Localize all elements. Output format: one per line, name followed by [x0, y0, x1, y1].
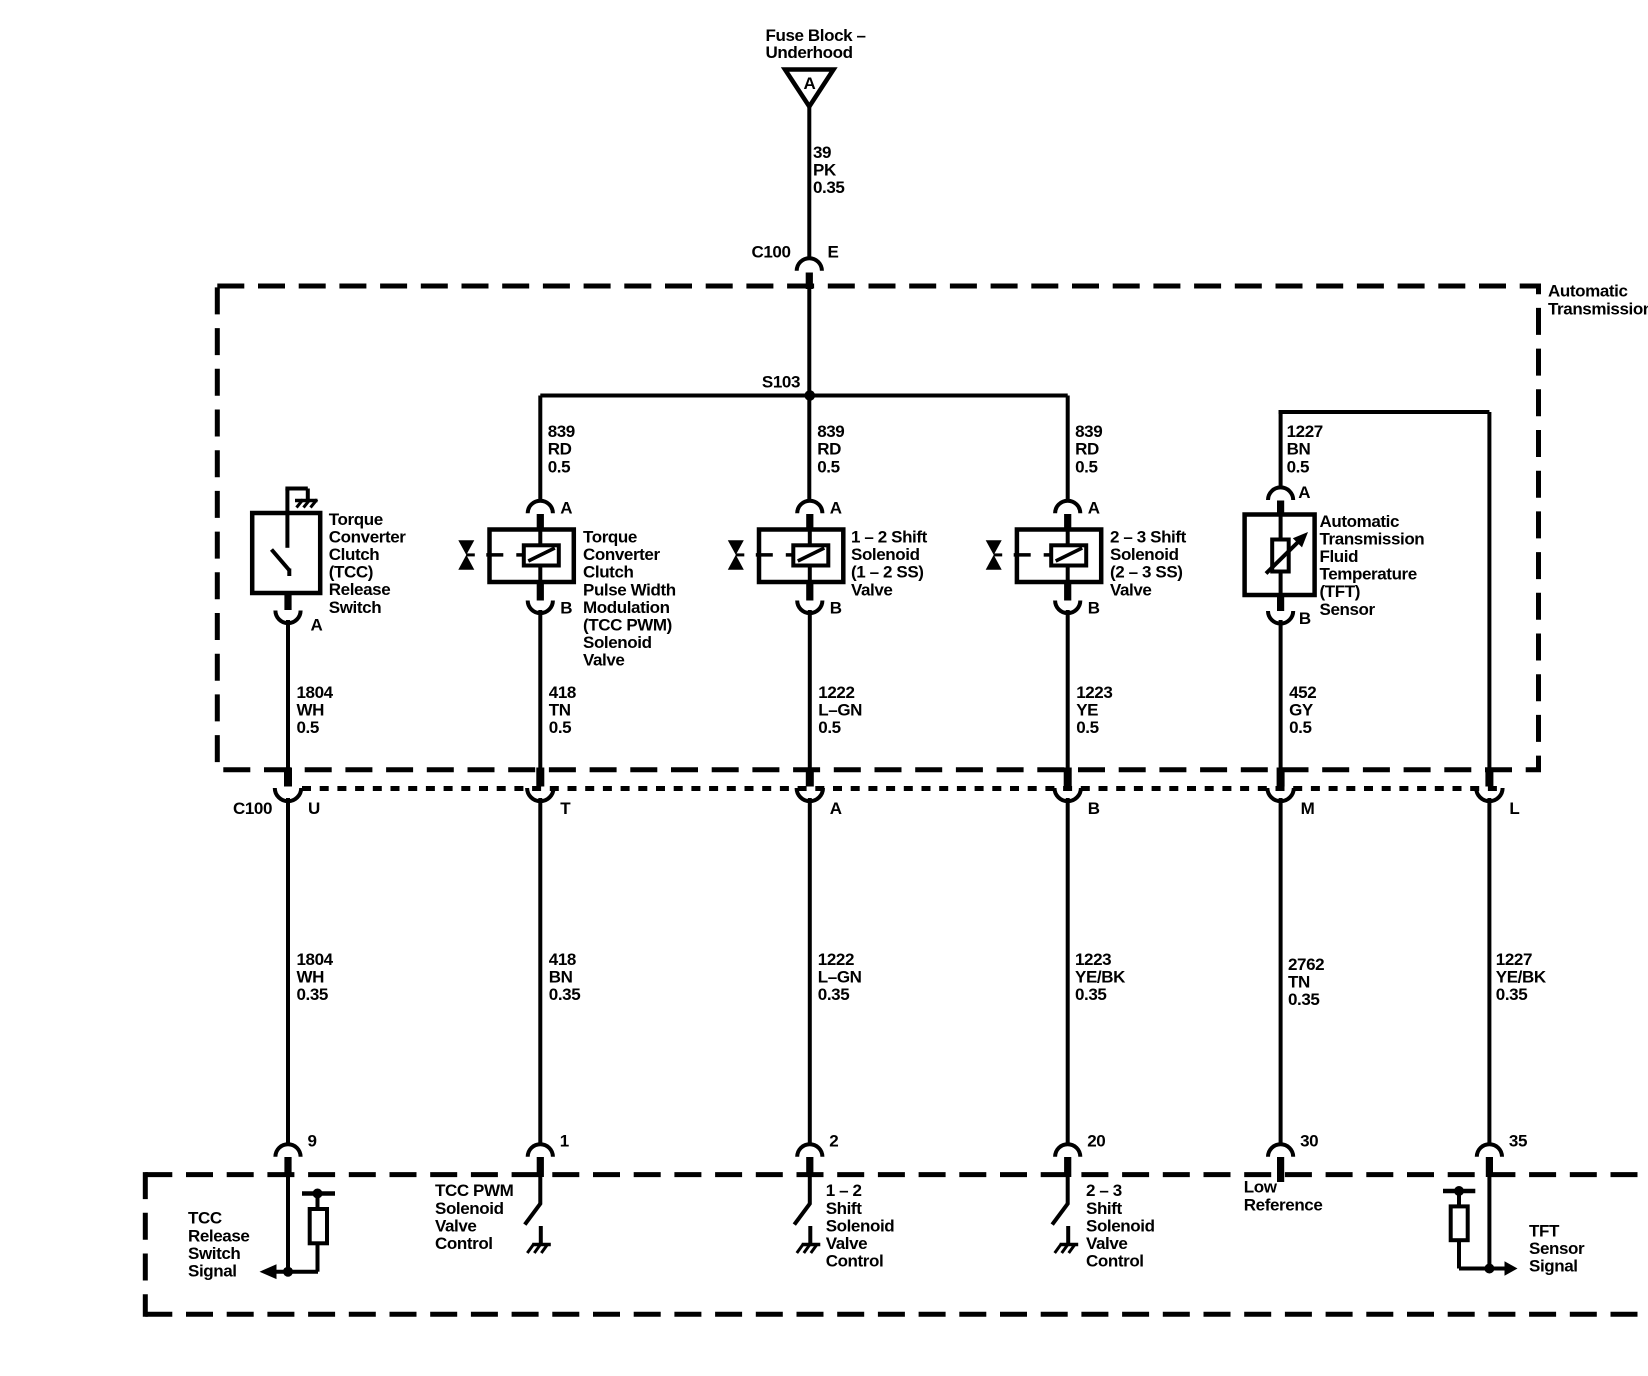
svg-text:B: B	[1088, 799, 1100, 818]
svg-text:0.35: 0.35	[818, 985, 850, 1004]
svg-text:U: U	[308, 799, 320, 818]
svg-text:TCC: TCC	[188, 1209, 222, 1228]
svg-text:Clutch: Clutch	[583, 563, 634, 582]
svg-text:2762: 2762	[1288, 955, 1324, 974]
svg-text:GY: GY	[1289, 701, 1314, 720]
svg-text:Release: Release	[329, 580, 390, 599]
svg-text:0.35: 0.35	[1288, 990, 1320, 1009]
svg-text:Sensor: Sensor	[1529, 1239, 1585, 1258]
svg-text:C100: C100	[233, 799, 272, 818]
svg-text:Sensor: Sensor	[1320, 600, 1376, 619]
svg-text:A: A	[560, 499, 572, 518]
svg-text:(TFT): (TFT)	[1320, 582, 1360, 601]
svg-text:Transmission: Transmission	[1548, 299, 1648, 318]
svg-text:TFT: TFT	[1529, 1221, 1560, 1240]
svg-text:RD: RD	[1075, 440, 1099, 459]
svg-text:1227: 1227	[1287, 422, 1323, 441]
svg-text:1227: 1227	[1496, 950, 1532, 969]
svg-text:452: 452	[1289, 683, 1316, 702]
svg-text:Control: Control	[1086, 1252, 1144, 1271]
svg-text:Signal: Signal	[1529, 1257, 1578, 1276]
svg-text:E: E	[828, 243, 839, 262]
svg-text:839: 839	[1075, 422, 1102, 441]
svg-text:1223: 1223	[1075, 950, 1111, 969]
svg-text:Valve: Valve	[851, 580, 893, 599]
svg-text:Solenoid: Solenoid	[1086, 1216, 1155, 1235]
svg-text:Pulse Width: Pulse Width	[583, 580, 676, 599]
svg-text:Converter: Converter	[583, 545, 660, 564]
svg-text:PK: PK	[813, 161, 837, 180]
svg-text:(2 – 3 SS): (2 – 3 SS)	[1110, 563, 1183, 582]
svg-text:9: 9	[308, 1132, 317, 1151]
svg-text:TN: TN	[1288, 973, 1310, 992]
svg-text:RD: RD	[817, 440, 841, 459]
svg-text:RD: RD	[548, 440, 572, 459]
svg-text:0.5: 0.5	[1289, 718, 1311, 737]
svg-text:35: 35	[1509, 1132, 1527, 1151]
svg-text:0.5: 0.5	[549, 718, 571, 737]
svg-text:Valve: Valve	[583, 651, 625, 670]
svg-text:Switch: Switch	[188, 1244, 240, 1263]
svg-text:Valve: Valve	[435, 1216, 477, 1235]
svg-text:M: M	[1301, 799, 1315, 818]
svg-text:Solenoid: Solenoid	[435, 1199, 504, 1218]
svg-text:Modulation: Modulation	[583, 598, 670, 617]
svg-text:S103: S103	[762, 373, 800, 392]
svg-text:0.5: 0.5	[1076, 718, 1098, 737]
svg-text:Torque: Torque	[329, 510, 383, 529]
svg-text:0.35: 0.35	[1075, 985, 1107, 1004]
svg-text:A: A	[830, 799, 842, 818]
svg-text:L–GN: L–GN	[818, 968, 862, 987]
svg-text:1804: 1804	[297, 683, 334, 702]
svg-text:Fluid: Fluid	[1320, 547, 1359, 566]
svg-text:Signal: Signal	[188, 1262, 237, 1281]
svg-text:Solenoid: Solenoid	[583, 633, 652, 652]
svg-text:L: L	[1509, 799, 1519, 818]
svg-text:YE/BK: YE/BK	[1496, 968, 1547, 987]
svg-text:A: A	[804, 74, 816, 93]
svg-text:0.5: 0.5	[1287, 457, 1309, 476]
svg-text:Automatic: Automatic	[1548, 282, 1628, 301]
svg-text:L–GN: L–GN	[818, 701, 862, 720]
svg-text:Switch: Switch	[329, 598, 381, 617]
svg-text:2: 2	[829, 1132, 838, 1151]
svg-text:Temperature: Temperature	[1320, 565, 1417, 584]
svg-text:Valve: Valve	[826, 1234, 868, 1253]
svg-text:Underhood: Underhood	[766, 43, 853, 62]
svg-text:B: B	[830, 598, 842, 617]
svg-text:Solenoid: Solenoid	[826, 1216, 895, 1235]
svg-text:Automatic: Automatic	[1320, 512, 1400, 531]
svg-text:30: 30	[1300, 1132, 1318, 1151]
svg-text:A: A	[311, 616, 323, 635]
svg-text:WH: WH	[297, 701, 325, 720]
svg-text:Valve: Valve	[1110, 580, 1152, 599]
svg-text:Solenoid: Solenoid	[1110, 545, 1179, 564]
svg-text:839: 839	[548, 422, 575, 441]
svg-text:Low: Low	[1244, 1178, 1278, 1197]
svg-text:Valve: Valve	[1086, 1234, 1128, 1253]
svg-text:A: A	[1298, 483, 1310, 502]
svg-text:2 – 3 Shift: 2 – 3 Shift	[1110, 528, 1187, 547]
svg-text:B: B	[560, 598, 572, 617]
svg-text:BN: BN	[549, 968, 573, 987]
svg-text:YE: YE	[1076, 701, 1098, 720]
svg-text:Reference: Reference	[1244, 1195, 1323, 1214]
svg-text:Shift: Shift	[1086, 1199, 1123, 1218]
svg-text:Converter: Converter	[329, 527, 406, 546]
svg-text:Shift: Shift	[826, 1199, 863, 1218]
svg-text:A: A	[830, 499, 842, 518]
svg-text:0.5: 0.5	[817, 457, 839, 476]
svg-text:2 – 3: 2 – 3	[1086, 1181, 1122, 1200]
svg-text:839: 839	[817, 422, 844, 441]
svg-text:Torque: Torque	[583, 528, 637, 547]
svg-text:(TCC PWM): (TCC PWM)	[583, 616, 672, 635]
svg-text:T: T	[560, 799, 571, 818]
svg-text:0.35: 0.35	[549, 985, 581, 1004]
svg-text:WH: WH	[297, 968, 325, 987]
svg-text:1804: 1804	[297, 950, 334, 969]
svg-text:1: 1	[560, 1132, 569, 1151]
svg-text:Control: Control	[826, 1252, 884, 1271]
svg-text:1 – 2 Shift: 1 – 2 Shift	[851, 528, 928, 547]
svg-text:YE/BK: YE/BK	[1075, 968, 1126, 987]
svg-text:Release: Release	[188, 1226, 249, 1245]
svg-text:Control: Control	[435, 1234, 493, 1253]
svg-text:1 – 2: 1 – 2	[826, 1181, 862, 1200]
svg-text:0.35: 0.35	[297, 985, 329, 1004]
svg-text:0.5: 0.5	[818, 718, 840, 737]
svg-text:20: 20	[1087, 1132, 1105, 1151]
svg-text:BN: BN	[1287, 440, 1311, 459]
svg-text:B: B	[1088, 598, 1100, 617]
svg-text:TCC PWM: TCC PWM	[435, 1181, 514, 1200]
svg-text:0.35: 0.35	[1496, 985, 1528, 1004]
svg-text:Transmission: Transmission	[1320, 529, 1425, 548]
svg-text:418: 418	[549, 683, 576, 702]
svg-text:Clutch: Clutch	[329, 545, 380, 564]
svg-text:B: B	[1299, 609, 1311, 628]
svg-text:0.5: 0.5	[297, 718, 319, 737]
svg-text:418: 418	[549, 950, 576, 969]
svg-text:1223: 1223	[1076, 683, 1112, 702]
svg-text:0.35: 0.35	[813, 178, 845, 197]
svg-text:A: A	[1088, 499, 1100, 518]
svg-text:C100: C100	[751, 243, 790, 262]
svg-text:1222: 1222	[818, 950, 854, 969]
svg-text:0.5: 0.5	[1075, 457, 1097, 476]
svg-text:1222: 1222	[818, 683, 854, 702]
svg-text:TN: TN	[549, 701, 571, 720]
svg-text:Solenoid: Solenoid	[851, 545, 920, 564]
svg-text:(TCC): (TCC)	[329, 563, 373, 582]
svg-text:39: 39	[813, 143, 831, 162]
svg-text:(1 – 2 SS): (1 – 2 SS)	[851, 563, 924, 582]
svg-text:0.5: 0.5	[548, 457, 570, 476]
